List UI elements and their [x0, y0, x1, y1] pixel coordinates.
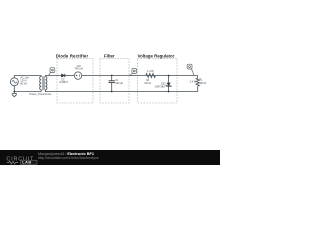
svg-text:Power_Transformer: Power_Transformer: [30, 93, 52, 96]
svg-text:740 mV: 740 mV: [74, 68, 83, 71]
svg-text:Filter: Filter: [104, 54, 115, 59]
svg-text:http://circuitlab.com/c/cnvv3n: http://circuitlab.com/c/cnvv3nw/bedfyve: [38, 156, 99, 160]
svg-text:910 Ω: 910 Ω: [144, 82, 151, 85]
svg-text:60 Hz: 60 Hz: [20, 83, 27, 86]
svg-text:LAB: LAB: [22, 161, 31, 165]
svg-text:240 µF: 240 µF: [115, 82, 123, 85]
svg-text:1.4 W: 1.4 W: [190, 81, 197, 84]
svg-text:1.4 W: 1.4 W: [147, 70, 154, 73]
svg-text:Voltage Regulator: Voltage Regulator: [138, 54, 175, 59]
svg-text:1N4736A: 1N4736A: [155, 85, 166, 88]
svg-text:1N4007: 1N4007: [59, 81, 68, 84]
svg-text:400 Ω: 400 Ω: [199, 82, 206, 85]
svg-text:Diode Rectifier: Diode Rectifier: [56, 54, 89, 59]
